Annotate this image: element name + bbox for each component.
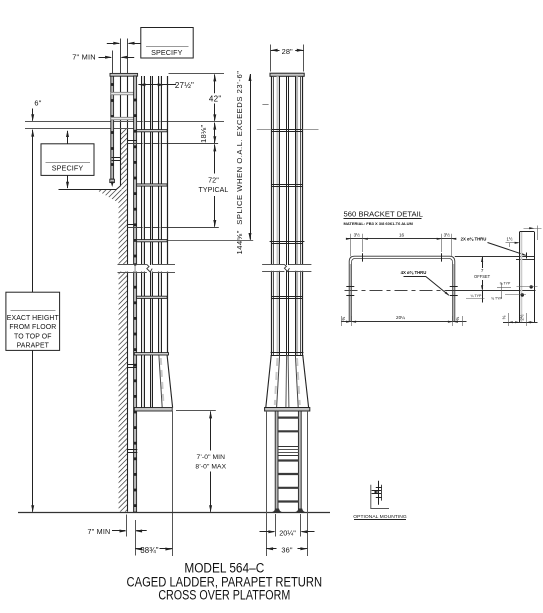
svg-text:4X ø⅜ THRU: 4X ø⅜ THRU — [401, 270, 427, 275]
svg-text:⅜: ⅜ — [341, 317, 346, 321]
svg-text:7" MIN: 7" MIN — [88, 527, 111, 536]
svg-text:MATERIAL: FB3 X 3/8 6061-T6 AL: MATERIAL: FB3 X 3/8 6061-T6 ALUM — [344, 221, 414, 226]
side view small dims upper right — [501, 283, 503, 299]
svg-text:SPECIFY: SPECIFY — [151, 48, 183, 57]
svg-text:36": 36" — [281, 545, 292, 554]
svg-text:3½: 3½ — [354, 231, 361, 237]
parapet return rail — [111, 76, 114, 182]
front flare edges — [266, 355, 271, 407]
parapet top reference line — [25, 121, 224, 123]
main stringer rung ticks — [134, 99, 137, 102]
front cage inner verticals — [277, 76, 279, 355]
svg-text:1½: 1½ — [506, 237, 512, 242]
svg-text:7: 7 — [481, 268, 484, 273]
front hoop splice — [270, 241, 305, 243]
subtitle line 1 — [127, 573, 323, 590]
cage side hoop 2 — [137, 184, 168, 186]
gap dash on splice dim — [262, 104, 268, 106]
main ladder stringer — [134, 76, 137, 512]
front hoop at parapet — [271, 129, 303, 131]
svg-text:16: 16 — [399, 233, 405, 238]
cage side flare bottom cap — [134, 408, 172, 412]
36in dimension — [266, 547, 273, 550]
parapet wall ledge and lower hatching — [96, 190, 128, 512]
svg-text:PARAPET: PARAPET — [17, 343, 50, 350]
model title — [184, 559, 264, 575]
svg-text:560 BRACKET DETAIL: 560 BRACKET DETAIL — [344, 209, 424, 218]
svg-text:8’-0" MAX: 8’-0" MAX — [195, 463, 226, 470]
front ladder break box — [278, 446, 298, 448]
svg-text:TYPICAL: TYPICAL — [199, 187, 229, 194]
svg-text:72": 72" — [208, 176, 219, 185]
wall ledge top line — [59, 189, 117, 191]
front parapet level ticks — [257, 129, 319, 131]
subtitle line 2 — [158, 587, 290, 603]
svg-text:⅜: ⅜ — [455, 317, 460, 321]
return rail end arrow — [111, 182, 114, 188]
svg-text:7" MIN: 7" MIN — [72, 53, 96, 62]
return rail foot plate — [110, 179, 115, 182]
bracket bottom dimension — [341, 321, 467, 323]
side view bottom dims — [503, 322, 538, 324]
svg-text:42": 42" — [209, 95, 222, 104]
specify box arrows — [67, 131, 69, 144]
front hoop 3 — [271, 296, 303, 298]
svg-text:20¼": 20¼" — [279, 528, 296, 537]
svg-text:OFFSET: OFFSET — [474, 274, 491, 279]
svg-text:7’-0" MIN: 7’-0" MIN — [197, 454, 226, 461]
top cap reference line — [169, 73, 225, 75]
cage side view verticals — [142, 76, 144, 355]
cage side flare inner lines — [159, 355, 162, 407]
bracket side view bar — [519, 232, 521, 322]
cage side flare right edge — [167, 355, 173, 407]
second specify box — [41, 144, 94, 176]
svg-text:144⅝" SPLICE WHEN O.A.L. EXCE: 144⅝" SPLICE WHEN O.A.L. EXCEEDS 23’-6" — [235, 71, 244, 255]
svg-text:27½": 27½" — [175, 81, 194, 90]
svg-text:⅜: ⅜ — [502, 315, 507, 319]
front hoop 2 — [271, 184, 303, 186]
centerline to side view — [446, 290, 536, 292]
svg-text:18⅛": 18⅛" — [199, 125, 208, 143]
exact height box — [6, 292, 60, 350]
return rung upper — [111, 92, 137, 95]
bracket centerline — [345, 290, 447, 292]
exact height dimension line — [31, 130, 34, 137]
return top cap plate — [110, 73, 138, 76]
front ladder feet — [272, 508, 282, 512]
optional mounting wall corner — [371, 485, 389, 509]
svg-text:¾ TYP: ¾ TYP — [491, 297, 502, 301]
rung reference line 72in level — [128, 227, 219, 229]
front flare bottom cap — [265, 408, 310, 412]
front break lines — [261, 265, 313, 271]
front lower ladder extension lines — [266, 411, 268, 556]
cage side hoop 4 — [134, 353, 168, 355]
front hoop 4 — [271, 352, 304, 354]
svg-text:¾ TYP: ¾ TYP — [500, 282, 511, 286]
cage side hoop 3 — [137, 296, 168, 298]
parapet second line — [25, 128, 136, 130]
return rung lower — [111, 117, 137, 120]
svg-text:EXACT HEIGHT: EXACT HEIGHT — [7, 315, 60, 322]
optional mounting plate — [372, 490, 381, 492]
wall bracket 2 — [128, 224, 137, 226]
wall inner face line — [127, 39, 129, 75]
front flare inner lines — [277, 355, 280, 407]
cage side hoop splice — [137, 240, 168, 242]
optional mounting ticks — [376, 487, 382, 489]
42in dimension — [213, 74, 216, 81]
splice reference line — [136, 240, 253, 242]
144.625 splice dimension — [249, 74, 252, 81]
bracket top dimension — [346, 238, 456, 240]
18.125in dimension — [213, 123, 216, 130]
38.75in dimension — [135, 548, 142, 551]
72in typical dimension — [213, 144, 216, 151]
front lower ladder stringers — [275, 411, 278, 510]
svg-text:2X ø⅜ THRU: 2X ø⅜ THRU — [461, 237, 487, 242]
wall bracket 1 — [128, 140, 137, 142]
svg-text:38¾": 38¾" — [140, 546, 158, 555]
side view hole dots — [530, 285, 533, 288]
bracket leg hole ticks — [346, 286, 354, 288]
svg-text:28": 28" — [282, 47, 293, 56]
front cage left edge — [271, 76, 273, 355]
front lower ladder rungs — [278, 417, 298, 419]
svg-text:20¼: 20¼ — [396, 315, 405, 320]
20.25in dimension — [260, 531, 275, 533]
wall outer face line — [120, 39, 122, 75]
wall bracket 3 — [128, 364, 137, 366]
return rail wall bracket — [112, 157, 121, 159]
front cage top cap — [270, 73, 304, 76]
svg-text:3½: 3½ — [444, 231, 451, 237]
svg-text:FROM FLOOR: FROM FLOOR — [9, 324, 56, 331]
offset dimension — [481, 257, 483, 262]
svg-text:SPECIFY: SPECIFY — [52, 164, 84, 173]
bracket hole ticks top bar — [362, 253, 364, 261]
wall thickness dimension arrows — [107, 43, 119, 45]
side view hole tick lines — [517, 286, 538, 288]
wall chamfer at ledge — [116, 186, 120, 190]
svg-text:¼ TYP: ¼ TYP — [471, 294, 483, 298]
top bar projection line — [455, 256, 534, 258]
28in dimension — [270, 45, 272, 72]
wall bracket 4 — [128, 449, 138, 451]
ground line — [18, 512, 330, 514]
svg-text:6": 6" — [34, 99, 41, 108]
rung reference line 18in level — [128, 143, 219, 145]
svg-text:2½: 2½ — [520, 314, 525, 320]
cage side straight bands through flare — [142, 355, 144, 407]
optional mounting rail lines — [378, 481, 380, 505]
cage side break lines — [114, 265, 177, 272]
return rail rung ticks — [111, 83, 114, 86]
svg-text:CROSS OVER PLATFORM: CROSS OVER PLATFORM — [158, 587, 290, 603]
top specify box — [141, 28, 193, 59]
7ft min 8ft max dimension — [209, 411, 212, 418]
cage side hoop at parapet — [137, 130, 168, 132]
bracket U outline — [349, 256, 455, 322]
front cage right edge — [302, 76, 304, 355]
27.5in dimension — [138, 83, 145, 86]
parapet wall hatching upper — [120, 129, 127, 189]
cage bottom reference line — [176, 410, 216, 412]
svg-text:TO TOP OF: TO TOP OF — [14, 333, 52, 340]
